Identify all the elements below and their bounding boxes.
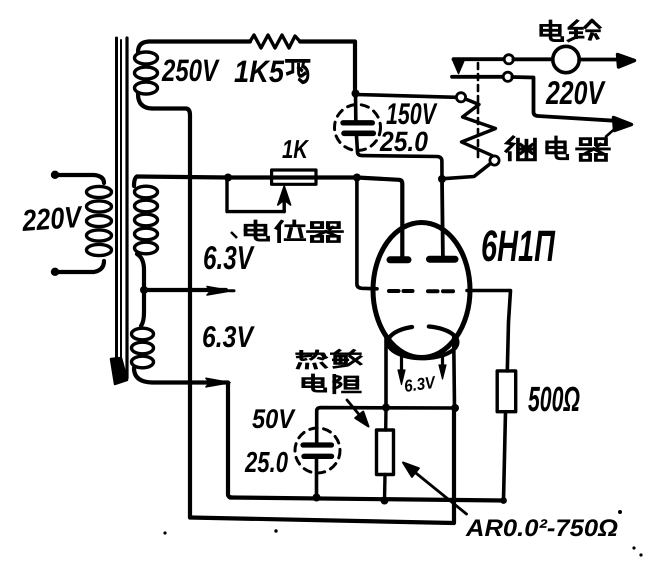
label dian-wei-qi (potentiometer): [246, 221, 268, 240]
contact circle C: [503, 72, 512, 81]
relay coil (zigzag): [462, 99, 496, 156]
thermistor bottom lead: [383, 475, 387, 501]
svg-text:250V: 250V: [161, 53, 220, 88]
thermistor Rt body: [377, 430, 394, 475]
small tick before potentiometer label: [231, 232, 237, 238]
tube 6H1P envelope: [373, 223, 470, 358]
potentiometer R 1K body: [272, 170, 316, 184]
label re-min (thermo): [297, 351, 325, 368]
resistor 500 ohm bottom lead: [504, 412, 506, 501]
capacitor C 50V 25.0: [295, 428, 340, 498]
bottom wire no.2: [230, 498, 504, 501]
node J5 (6.3V windings junction): [140, 286, 148, 294]
anode plate right: [430, 256, 456, 263]
secondary 6.3V winding no.2: [132, 290, 154, 383]
wire: grid out to resistor 500 ohm: [467, 291, 511, 372]
svg-text:220V: 220V: [20, 201, 84, 238]
node J9 (thermistor bottom): [381, 497, 389, 505]
tube grid (dashed): [389, 289, 453, 293]
arrowhead on heater wire no.1: [207, 287, 231, 296]
wire: 6.3V no1 top to potentiometer line: [137, 177, 402, 258]
wire: resistor R1 to node J1: [300, 42, 355, 94]
svg-text:500Ω: 500Ω: [528, 380, 580, 419]
node J8 (cathode right / bottom return): [451, 404, 459, 412]
node J7 (cathode left / thermistor top): [382, 404, 390, 412]
wire: bell to mains arrow: [579, 58, 619, 62]
contact circle B: [504, 55, 513, 64]
cathode lead right: [452, 337, 456, 408]
cathode lead left: [384, 337, 388, 408]
label leader arrow (AR0.0 to thermistor): [414, 472, 467, 515]
arrowhead to 220V mains (bell line): [618, 55, 635, 68]
secondary 250V winding: [135, 42, 158, 109]
wire stub after arrowhead: [229, 289, 234, 292]
220V mains line 2: [512, 77, 616, 121]
bell circuit: [513, 57, 553, 61]
capacitor C 150V 25.0: [335, 94, 443, 180]
relay fixed contact bar 2: [452, 75, 503, 79]
bell B1: [553, 46, 579, 72]
arrowhead to 220V mains (return line): [614, 118, 632, 131]
node J11 (resistor 500 ohm bottom): [500, 497, 507, 504]
arrowhead on heater wire no.2: [206, 378, 230, 387]
svg-text:1K5: 1K5: [234, 54, 285, 89]
thermistor top lead: [384, 408, 388, 431]
node J2 (anode right / cap bottom / relay coil): [438, 175, 446, 183]
relay armature wedge: [453, 60, 465, 74]
heater arrowhead right: [439, 365, 446, 379]
relay coil bottom contact circle D: [490, 156, 499, 165]
anode plate left: [390, 256, 408, 263]
leader arrowhead at thermistor: [355, 412, 368, 427]
wire J1 to relay armature contact: [356, 95, 457, 98]
primary terminal blobs: [51, 171, 59, 179]
svg-text:6H1Π: 6H1Π: [481, 222, 556, 271]
heater wire no.1 with arrow: [144, 288, 226, 292]
wire: 250V winding top to resistor R1: [149, 39, 250, 43]
primary winding 220V: [54, 175, 112, 272]
svg-text:1K: 1K: [282, 134, 310, 164]
label dian-ling (electric bell): [541, 21, 562, 41]
wire: 50V cap top, heater bus y=407.5: [317, 408, 455, 443]
label leader arrow (thermistor from label): [347, 400, 359, 415]
heater ellipse with top gap: [388, 327, 458, 359]
anode lead right from J2: [440, 179, 445, 256]
label ji-dian-qi (relay): [506, 137, 535, 160]
resistor R 500ohm body: [497, 371, 516, 412]
transformer core: [111, 38, 127, 384]
resistor R 1K5 (zigzag): [250, 35, 300, 48]
node J4 (grid branch): [353, 174, 361, 182]
potentiometer wiper stem: [283, 201, 286, 212]
svg-text:25.0: 25.0: [379, 126, 428, 157]
arrow tail flick: [606, 130, 614, 137]
heater wire no.2 with arrow, down to bottom wire no.2: [152, 383, 232, 498]
paper specks: [163, 510, 642, 557]
wire: bottom return, up to cathode node J8: [190, 408, 454, 523]
wire: grid branch from node J4 into tube: [357, 178, 377, 289]
node J3 (pot left terminal / wiper tie): [224, 174, 232, 182]
svg-text:220V: 220V: [545, 74, 606, 111]
node J1 (B+ / cap 150V top): [352, 90, 360, 98]
wire: wiper tie to node J3: [227, 178, 284, 212]
secondary 6.3V winding no.1: [134, 177, 158, 291]
wire: 250V bottom, long left vertical down to bottom: [152, 109, 190, 518]
node J10 (cap 50V bottom): [313, 494, 321, 502]
relay: armature contact circle A: [456, 93, 465, 102]
svg-text:50V: 50V: [252, 404, 296, 434]
svg-text:6.3V: 6.3V: [202, 321, 255, 354]
diagonal from coil bottom to J2: [443, 164, 491, 179]
heater stubs with down arrows: [400, 357, 403, 372]
svg-text:AR0.0²-750Ω: AR0.0²-750Ω: [465, 515, 618, 542]
leader arrowhead from AR label: [403, 463, 419, 477]
relay armature top bar with wedge: [454, 57, 505, 61]
heater stub right: [441, 354, 444, 367]
label dian-zu (resistor): [303, 375, 325, 391]
svg-text:6.3V: 6.3V: [403, 373, 438, 396]
heater arrowhead left: [398, 370, 405, 385]
potentiometer wiper arrowhead: [278, 186, 291, 205]
label wa (watt) after 1K5: [287, 61, 309, 82]
svg-text:6.3V: 6.3V: [203, 239, 255, 276]
svg-text:25.0: 25.0: [244, 447, 288, 479]
relay mechanical dashed link: [477, 63, 480, 160]
